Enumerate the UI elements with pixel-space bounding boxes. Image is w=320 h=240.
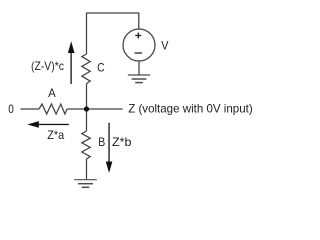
svg-text:(Z-V)*c: (Z-V)*c	[31, 59, 64, 73]
wire source top drop	[138, 13, 140, 30]
resistor B	[82, 131, 90, 159]
arrow current Z*a left	[27, 121, 69, 128]
wire source to ground	[138, 61, 140, 75]
wire node to B	[86, 109, 88, 131]
resistor A	[39, 104, 67, 114]
svg-text:B: B	[98, 135, 105, 149]
wire top horizontal	[87, 12, 139, 14]
svg-text:0: 0	[8, 102, 14, 116]
wire node to Z label	[87, 108, 123, 110]
ground under source	[128, 75, 150, 83]
wire B to ground	[86, 159, 88, 180]
svg-text:Z*a: Z*a	[47, 128, 64, 142]
wire main vertical upper	[86, 13, 88, 55]
arrow current (Z-V)*c up	[68, 41, 75, 84]
resistor C	[82, 54, 90, 84]
wire left horizontal	[21, 108, 40, 110]
ground bottom	[74, 180, 96, 188]
wire A to node	[67, 108, 87, 110]
voltage source plus sign	[135, 33, 142, 53]
svg-text:V: V	[161, 39, 168, 53]
arrow current Z*b down	[106, 123, 113, 173]
voltage source minus sign	[135, 52, 142, 54]
voltage source V circle	[123, 29, 155, 61]
svg-text:A: A	[48, 86, 56, 100]
wire C to node	[86, 84, 88, 109]
node Z junction dot	[84, 106, 89, 111]
svg-text:C: C	[97, 60, 105, 74]
svg-text:Z*b: Z*b	[112, 135, 132, 149]
svg-text:Z (voltage with 0V input): Z (voltage with 0V input)	[128, 101, 253, 115]
